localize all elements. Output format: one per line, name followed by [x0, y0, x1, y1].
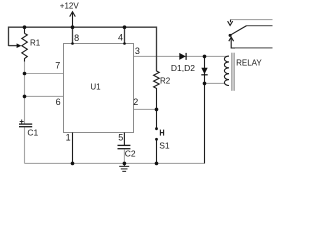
svg-text:U1: U1 — [90, 82, 101, 91]
svg-text:D1,D2: D1,D2 — [171, 63, 195, 73]
svg-text:4: 4 — [118, 32, 123, 42]
svg-text:S1: S1 — [159, 141, 170, 151]
svg-text:1: 1 — [66, 133, 71, 143]
svg-text:RELAY: RELAY — [236, 58, 262, 67]
svg-text:6: 6 — [56, 97, 61, 107]
svg-text:R2: R2 — [160, 77, 171, 86]
svg-text:C1: C1 — [27, 127, 38, 137]
svg-text:3: 3 — [135, 46, 140, 56]
svg-text:+12V: +12V — [60, 2, 80, 11]
svg-text:C2: C2 — [125, 148, 136, 158]
svg-text:2: 2 — [133, 97, 138, 107]
svg-text:7: 7 — [55, 60, 60, 70]
svg-text:5: 5 — [118, 133, 123, 143]
svg-text:R1: R1 — [30, 38, 41, 47]
svg-text:8: 8 — [74, 33, 79, 43]
